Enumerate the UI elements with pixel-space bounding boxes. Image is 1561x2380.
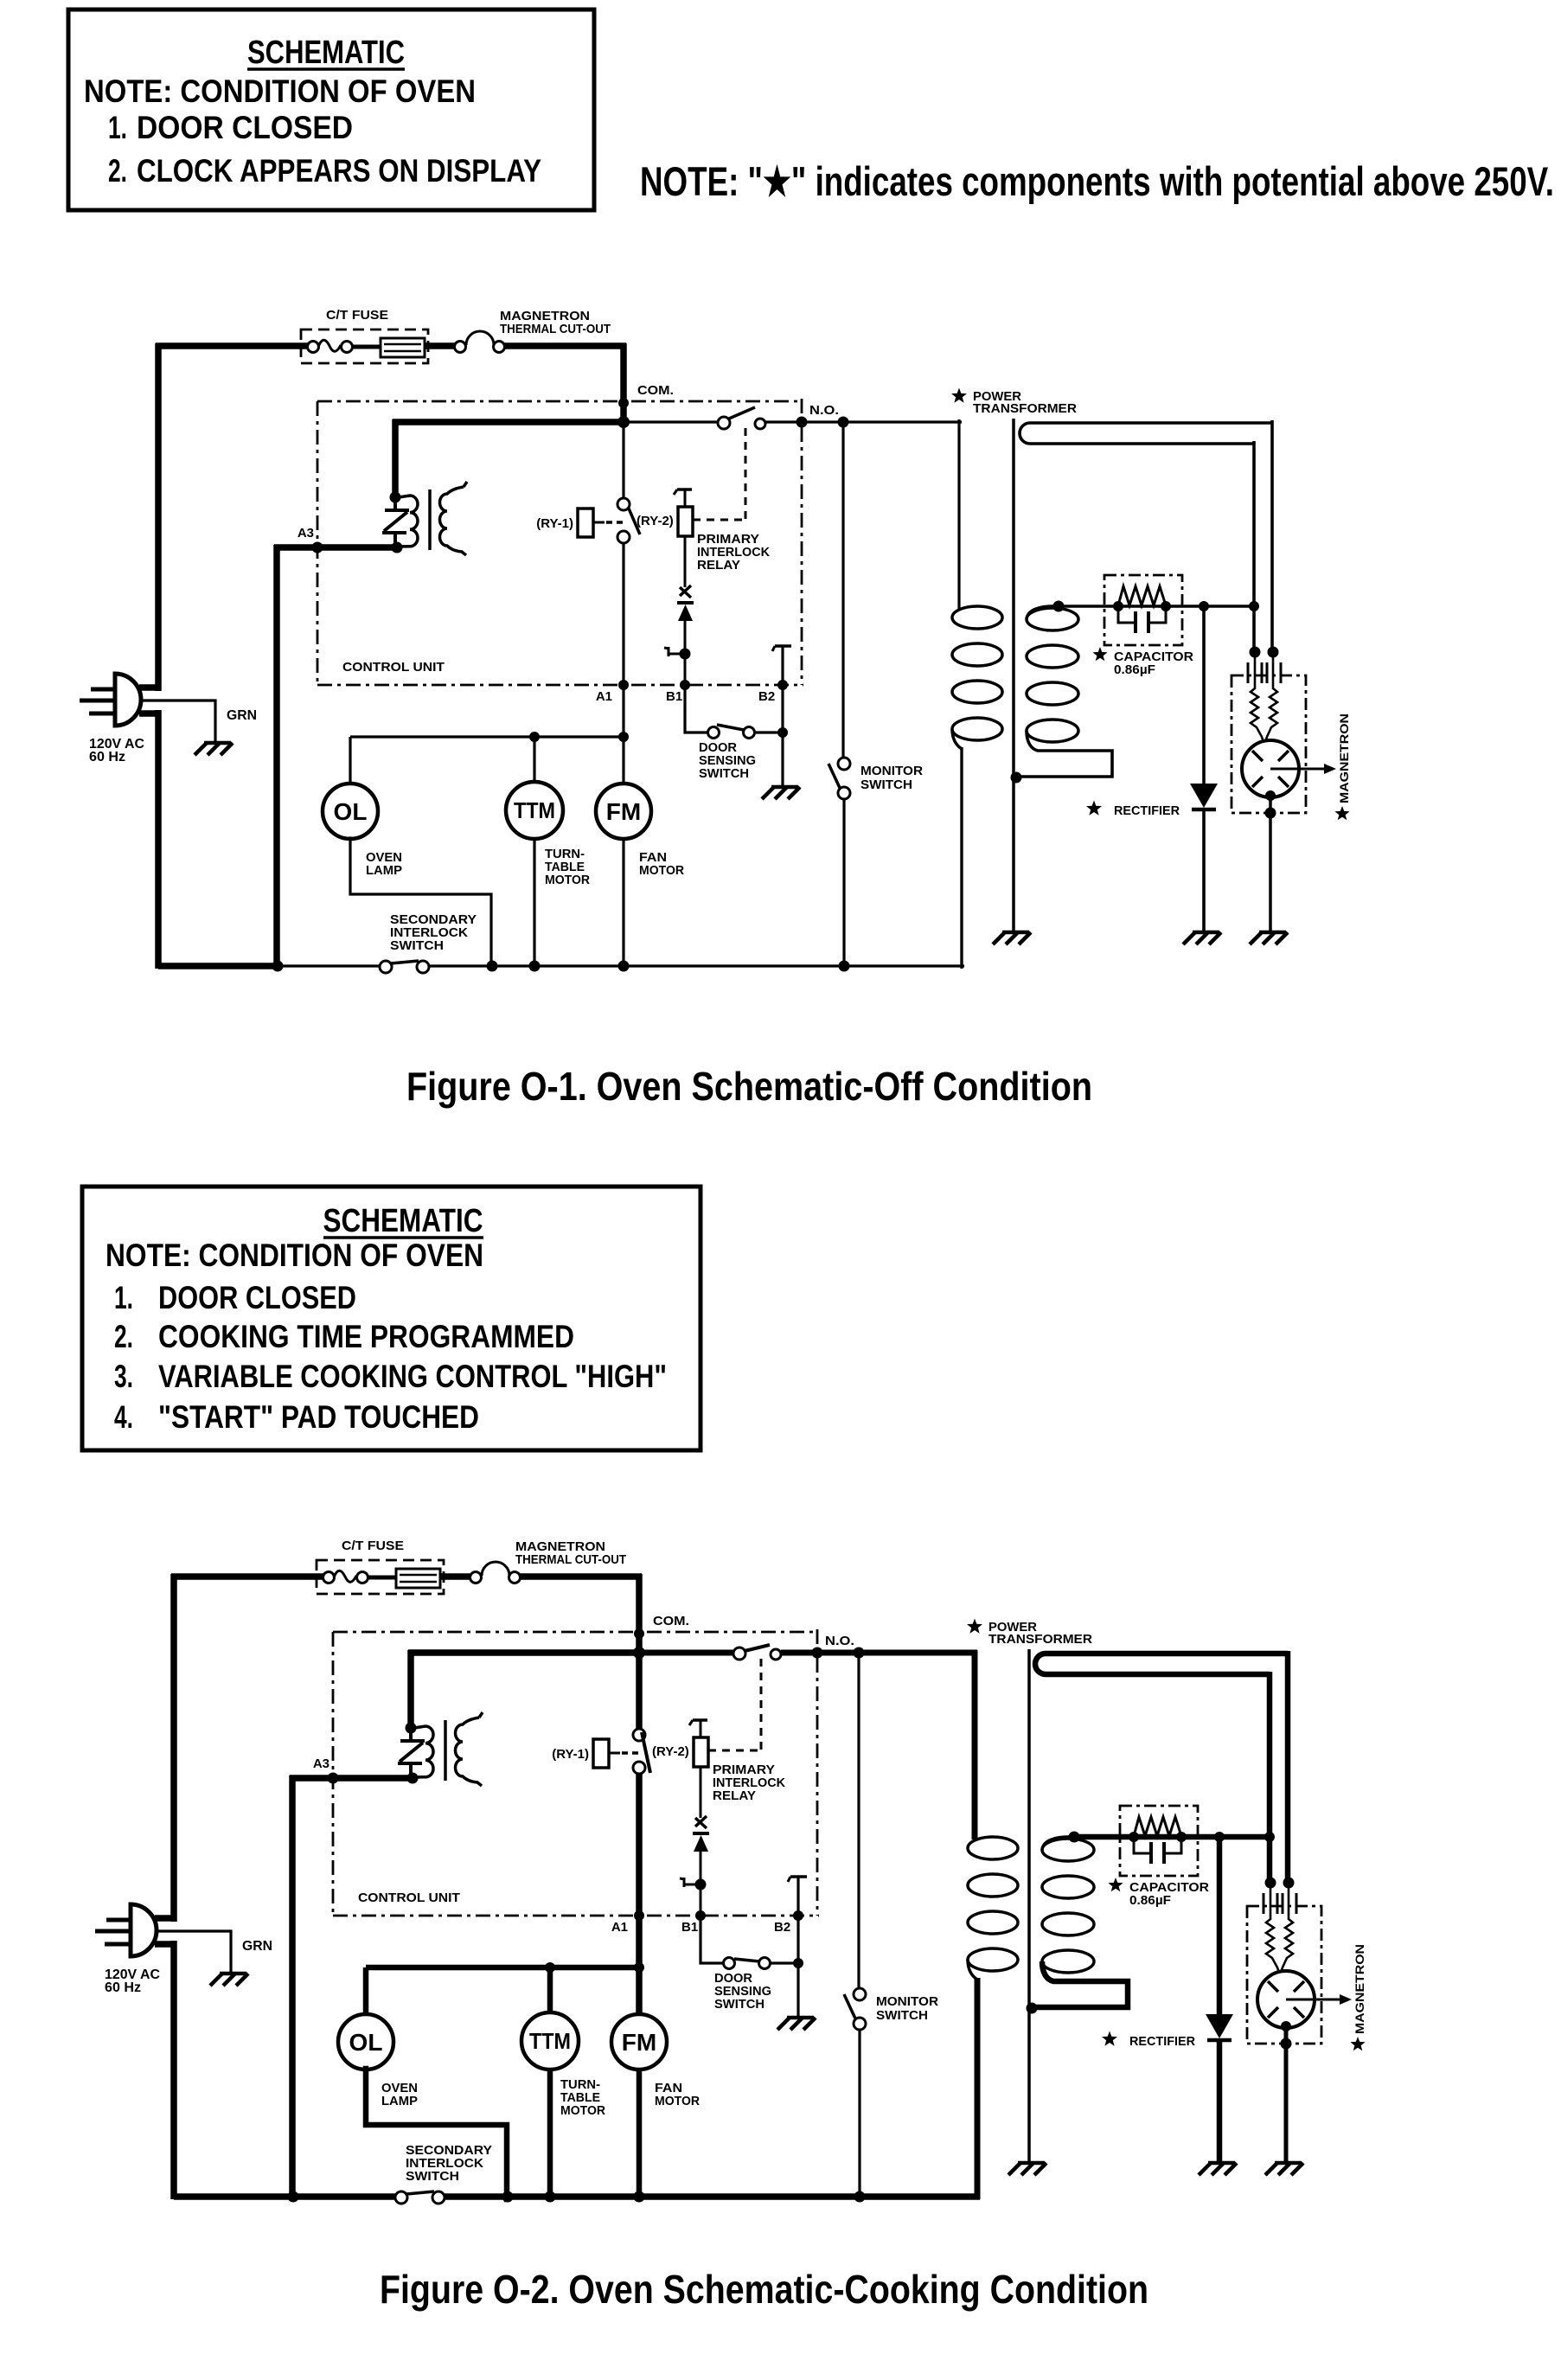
svg-text:(RY-1): (RY-1) [536, 516, 573, 531]
svg-text:N.O.: N.O. [825, 1634, 854, 1648]
svg-text:NOTE: CONDITION OF OVEN: NOTE: CONDITION OF OVEN [84, 74, 476, 109]
rectifier CR2 (star) [1202, 606, 1206, 784]
wire: oven lamp return [350, 838, 491, 969]
svg-text:RECTIFIER: RECTIFIER [1129, 2034, 1195, 2049]
svg-text:THERMAL CUT-OUT: THERMAL CUT-OUT [500, 322, 611, 336]
switch S3 MONITOR SWITCH [857, 1653, 860, 1989]
svg-text:CONTROL UNIT: CONTROL UNIT [342, 660, 445, 675]
svg-text:SWITCH: SWITCH [860, 778, 912, 792]
svg-text:B1: B1 [666, 689, 682, 704]
terminal tab at junction [680, 649, 691, 660]
svg-text:DOOR CLOSED: DOOR CLOSED [158, 1280, 356, 1315]
oven lamp OL [349, 737, 351, 784]
wire: N.O. to T1 primary [957, 419, 960, 609]
svg-text:B2: B2 [758, 689, 775, 704]
wire: bottom rail (left, energized) [158, 963, 281, 969]
svg-text:C/T FUSE: C/T FUSE [342, 1539, 404, 1553]
capacitor C1 with bleeder resistor (dash-dot box) [1104, 575, 1182, 645]
suppressor mark [680, 587, 691, 598]
wire: neutral lead from plug down the left side [155, 1941, 176, 1948]
svg-text:GRN: GRN [227, 708, 257, 723]
wire: top supply line to fuse [171, 1573, 323, 1580]
transformer T2 control-unit transformer [390, 492, 401, 503]
svg-text:2.: 2. [114, 1319, 133, 1354]
svg-text:COOKING TIME PROGRAMMED: COOKING TIME PROGRAMMED [158, 1319, 574, 1354]
wire: N.O. to T1 primary [972, 1650, 978, 1839]
svg-text:1.: 1. [114, 1280, 133, 1315]
svg-text:A3: A3 [313, 1756, 329, 1771]
svg-text:TTM: TTM [514, 797, 555, 823]
rectifier CR2 (star) [1217, 1837, 1223, 2014]
svg-text:RECTIFIER: RECTIFIER [1114, 803, 1180, 818]
oven lamp OL [363, 1967, 369, 2015]
node COM [618, 398, 629, 408]
svg-text:MOTOR: MOTOR [560, 2104, 606, 2118]
label MAGNETRON (star, vertical) [1334, 806, 1349, 820]
svg-text:FM: FM [622, 2029, 656, 2056]
thermal cut-out TC1 MAGNETRON THERMAL CUT-OUT [470, 1572, 482, 1583]
svg-text:FM: FM [606, 798, 641, 825]
svg-text:CAPACITOR: CAPACITOR [1114, 650, 1194, 664]
wire: magnetron cathode to ground [1281, 2021, 1291, 2031]
fan motor FM [636, 1967, 643, 2015]
wire: filament lead right [1270, 420, 1274, 652]
svg-text:COM.: COM. [653, 1614, 689, 1628]
antenna output arrow [1270, 768, 1325, 771]
svg-text:4.: 4. [114, 1399, 133, 1435]
switch S2 DOOR SENSING SWITCH [701, 1918, 723, 1963]
svg-text:(RY-1): (RY-1) [552, 1747, 589, 1762]
diode CR1 [693, 1832, 709, 1835]
wire: COM to control transformer primary [393, 419, 626, 425]
T1 HV secondary winding [1027, 608, 1078, 630]
thermal cut-out TC1 MAGNETRON THERMAL CUT-OUT [455, 342, 466, 353]
wire: hot lead from plug up the left side [139, 684, 161, 691]
svg-text:TRANSFORMER: TRANSFORMER [988, 1633, 1093, 1647]
turntable motor TTM [547, 1967, 553, 2013]
svg-text:TRANSFORMER: TRANSFORMER [973, 402, 1078, 416]
svg-text:MAGNETRON: MAGNETRON [1353, 1944, 1366, 2034]
ground: T1 core/secondary [1002, 931, 1029, 935]
wire: secondary to capacitor [1059, 605, 1254, 608]
svg-text:INTERLOCK: INTERLOCK [390, 926, 469, 940]
svg-text:RELAY: RELAY [697, 559, 740, 573]
svg-text:PRIMARY: PRIMARY [713, 1763, 775, 1777]
svg-text:A3: A3 [297, 526, 314, 541]
svg-text:RELAY: RELAY [713, 1789, 756, 1803]
label CAPACITOR 0.86uF (star) [1092, 647, 1107, 661]
wire: fuse to thermal cut-out [440, 1573, 470, 1580]
wire: top supply line to fuse [156, 342, 308, 349]
antenna output arrow [1286, 1999, 1340, 2001]
diode CR1 [677, 601, 694, 605]
ground: rectifier [1208, 2161, 1235, 2166]
svg-text:B2: B2 [774, 1920, 790, 1935]
wire: A3 down to bottom rail [289, 1775, 296, 2199]
magnetron V1 (dash-dot box) [1247, 1906, 1321, 2044]
ground: magnetron [1259, 931, 1286, 935]
switch S1 SECONDARY INTERLOCK SWITCH [278, 964, 381, 967]
control unit box (dash-dot outline) [317, 400, 802, 403]
svg-text:SWITCH: SWITCH [876, 2009, 928, 2023]
svg-text:TURN-: TURN- [560, 2078, 600, 2092]
svg-text:(RY-2): (RY-2) [637, 514, 674, 528]
switch S3 MONITOR SWITCH [841, 422, 844, 758]
svg-text:CONTROL UNIT: CONTROL UNIT [358, 1891, 460, 1905]
wire: filament lead right [1285, 1651, 1291, 1883]
svg-text:SECONDARY: SECONDARY [406, 2144, 492, 2158]
fuse F1 C/T FUSE [317, 1560, 444, 1594]
svg-text:FAN: FAN [655, 2082, 682, 2095]
terminal tab at junction [695, 1879, 707, 1891]
magnetron heater [1251, 657, 1264, 742]
svg-text:NOTE: CONDITION OF OVEN: NOTE: CONDITION OF OVEN [106, 1238, 483, 1273]
switch contact RY-1 [622, 425, 624, 498]
svg-text:N.O.: N.O. [809, 403, 839, 418]
svg-text:CLOCK APPEARS ON DISPLAY: CLOCK APPEARS ON DISPLAY [137, 153, 541, 189]
svg-text:3.: 3. [114, 1359, 133, 1394]
wire: RY-2 coil to diode [700, 1767, 702, 1818]
note box: schematic cooking-condition notes [82, 1187, 701, 1450]
wire: A3 down to bottom rail [273, 545, 280, 969]
svg-text:C/T FUSE: C/T FUSE [326, 308, 388, 323]
wire: T1 primary to bottom rail [975, 1978, 981, 2199]
svg-text:MOTOR: MOTOR [655, 2095, 701, 2108]
svg-text:0.86µF: 0.86µF [1114, 663, 1155, 677]
turntable motor TTM [533, 737, 535, 783]
label CAPACITOR 0.86uF (star) [1108, 1878, 1123, 1891]
node COM [634, 1628, 644, 1639]
node A1 [618, 680, 629, 690]
transformer T1 POWER TRANSFORMER (star) [951, 388, 967, 403]
svg-text:NOTE: "★" indicates components: NOTE: "★" indicates components with pote… [640, 158, 1554, 204]
node N.O. [781, 1650, 977, 1656]
wire: motor feed line [366, 1965, 639, 1971]
svg-text:DOOR: DOOR [714, 1972, 753, 1986]
svg-text:MONITOR: MONITOR [876, 1995, 939, 2009]
wire: HV secondary to ground hook [1017, 731, 1112, 777]
svg-text:"START" PAD TOUCHED: "START" PAD TOUCHED [158, 1399, 479, 1435]
relay contact: primary interlock (COM-N.O.) [643, 1650, 734, 1656]
node B2 [796, 1877, 799, 2016]
wire: neutral lead from plug down the left side [139, 710, 161, 717]
relay contact: primary interlock (COM-N.O.) [627, 420, 719, 423]
AC plug P1 [131, 1904, 157, 1956]
svg-text:B1: B1 [681, 1920, 698, 1935]
svg-text:SWITCH: SWITCH [714, 1998, 765, 2012]
fuse F1 C/T FUSE [301, 329, 428, 363]
T1 core [1012, 419, 1015, 931]
fan motor FM [622, 737, 624, 784]
wire: COM to control transformer primary [408, 1649, 642, 1656]
T1 filament winding hairpin [1020, 423, 1272, 444]
T1 filament winding hairpin [1035, 1654, 1288, 1674]
svg-text:OVEN: OVEN [366, 851, 402, 865]
transformer T2 control-unit transformer [406, 1723, 417, 1734]
svg-text:MOTOR: MOTOR [639, 864, 685, 878]
svg-text:0.86µF: 0.86µF [1129, 1894, 1171, 1908]
wire: T1 primary to bottom rail [960, 747, 963, 969]
wire: thermal cut-out to COM corner [504, 342, 626, 349]
magnetron tube circle [1242, 740, 1299, 797]
svg-text:SWITCH: SWITCH [390, 939, 444, 953]
svg-text:TABLE: TABLE [560, 2091, 600, 2105]
ground: magnetron [1275, 2161, 1302, 2166]
T1 primary winding [952, 606, 1002, 629]
wire: oven lamp return [366, 2069, 507, 2199]
svg-text:OVEN: OVEN [381, 2082, 418, 2095]
wire: hot lead from plug up the left side [155, 1915, 176, 1922]
svg-text:SWITCH: SWITCH [406, 2170, 459, 2184]
magnetron heater [1266, 1888, 1279, 1973]
svg-text:CAPACITOR: CAPACITOR [1129, 1881, 1210, 1895]
switch S1 SECONDARY INTERLOCK SWITCH [294, 2193, 396, 2200]
svg-text:OL: OL [349, 2029, 383, 2056]
switch S2 DOOR SENSING SWITCH [685, 688, 707, 733]
svg-text:MOTOR: MOTOR [545, 873, 591, 887]
svg-text:Figure O-2. Oven Schematic-Coo: Figure O-2. Oven Schematic-Cooking Condi… [380, 2267, 1148, 2312]
filament feed-through capacitors [1247, 662, 1250, 683]
svg-text:1.: 1. [108, 110, 127, 145]
wire: magnetron cathode to ground [1265, 790, 1276, 801]
node A1 [634, 1910, 644, 1921]
magnetron tube circle [1257, 1971, 1315, 2028]
node: filament terminals [1250, 647, 1261, 658]
wire: HV secondary to ground hook [1033, 1961, 1128, 2007]
wire: A1 to motor branch [622, 688, 624, 737]
wire: thermal cut-out to COM corner [520, 1573, 642, 1580]
wire: bottom rail (right) [429, 964, 964, 967]
svg-text:GRN: GRN [242, 1939, 272, 1954]
transformer T1 POWER TRANSFORMER (star) [967, 1619, 982, 1634]
magnetron V1 (dash-dot box) [1232, 675, 1306, 813]
ground: rectifier [1193, 931, 1219, 935]
svg-text:INTERLOCK: INTERLOCK [713, 1776, 786, 1790]
ground: T1 core/secondary [1018, 2161, 1045, 2166]
wire: filament lead left [1252, 441, 1256, 652]
ground: door sensing switch [787, 2016, 814, 2020]
svg-text:SENSING: SENSING [714, 1985, 771, 1999]
wire: RY-2 coil to diode [684, 536, 687, 587]
wire: ground lead GRN [141, 701, 215, 741]
wire: A1 to motor branch [636, 1918, 643, 1967]
wire: ground lead GRN [157, 1931, 231, 1972]
svg-text:Figure O-1. Oven Schematic-Off: Figure O-1. Oven Schematic-Off Condition [406, 1064, 1092, 1109]
T1 primary winding [968, 1837, 1018, 1859]
suppressor mark [695, 1818, 707, 1828]
svg-text:PRIMARY: PRIMARY [697, 533, 759, 547]
svg-text:LAMP: LAMP [381, 2095, 418, 2108]
T1 HV secondary winding [1042, 1839, 1094, 1861]
switch contact RY-1 [636, 1656, 643, 1730]
svg-text:A1: A1 [611, 1920, 628, 1935]
svg-text:INTERLOCK: INTERLOCK [697, 546, 771, 560]
svg-text:DOOR: DOOR [699, 741, 738, 755]
wire: bottom rail (left, energized) [174, 2193, 297, 2200]
svg-text:MONITOR: MONITOR [860, 765, 924, 778]
ground: chassis ground at plug [204, 741, 231, 745]
svg-text:SENSING: SENSING [699, 754, 756, 768]
svg-text:60 Hz: 60 Hz [105, 1980, 141, 1995]
svg-text:A1: A1 [596, 689, 612, 704]
svg-text:COM.: COM. [637, 383, 674, 398]
svg-text:2.: 2. [108, 153, 127, 189]
svg-text:DOOR CLOSED: DOOR CLOSED [137, 110, 353, 145]
wire: bottom rail (right) [445, 2193, 980, 2200]
svg-text:OL: OL [334, 798, 368, 825]
note box: schematic off-condition notes [68, 10, 594, 210]
wire: motor feed line [350, 735, 624, 738]
wire: secondary to capacitor [1074, 1834, 1270, 1840]
T1 core [1027, 1649, 1031, 2161]
svg-text:MAGNETRON: MAGNETRON [1337, 713, 1351, 803]
svg-text:VARIABLE COOKING CONTROL "HIGH: VARIABLE COOKING CONTROL "HIGH" [158, 1359, 667, 1394]
capacitor C1 with bleeder resistor (dash-dot box) [1120, 1806, 1198, 1876]
svg-text:TURN-: TURN- [545, 848, 585, 861]
svg-text:SCHEMATIC: SCHEMATIC [247, 35, 405, 71]
wire: fuse to thermal cut-out [425, 342, 455, 349]
filament feed-through capacitors [1263, 1893, 1265, 1914]
node B1 [695, 1910, 706, 1921]
svg-text:TABLE: TABLE [545, 861, 585, 874]
svg-text:SWITCH: SWITCH [699, 767, 749, 781]
AC plug P1 [115, 674, 141, 726]
node B1 [680, 680, 690, 690]
ground: chassis ground at plug [220, 1972, 246, 1976]
svg-text:(RY-2): (RY-2) [652, 1744, 689, 1759]
ground: door sensing switch [771, 785, 798, 790]
svg-text:SECONDARY: SECONDARY [390, 913, 477, 927]
svg-text:FAN: FAN [639, 851, 667, 865]
svg-text:60 Hz: 60 Hz [89, 750, 125, 765]
control unit box (dash-dot outline) [333, 1631, 817, 1634]
label MAGNETRON (star, vertical) [1350, 2037, 1365, 2051]
node N.O. [765, 420, 962, 423]
node B2 [781, 646, 784, 785]
svg-text:LAMP: LAMP [366, 864, 402, 878]
svg-text:SCHEMATIC: SCHEMATIC [323, 1203, 483, 1239]
svg-text:INTERLOCK: INTERLOCK [406, 2157, 484, 2171]
wire: filament lead left [1267, 1672, 1273, 1883]
node: filament terminals [1265, 1878, 1276, 1889]
svg-text:THERMAL CUT-OUT: THERMAL CUT-OUT [515, 1552, 626, 1567]
svg-text:TTM: TTM [529, 2028, 571, 2054]
